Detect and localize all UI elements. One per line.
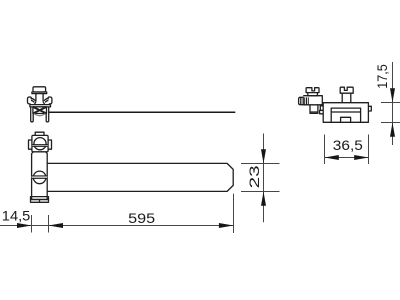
side view left screw head with slot notch	[306, 88, 319, 93]
arrow 36,5 right (points right at x=368.5)	[354, 155, 368, 160]
dimension 23 vertical dimension line	[263, 134, 265, 223]
front view screw housing	[32, 135, 48, 151]
top view right claw curves	[44, 98, 48, 102]
top view shank flare to plate	[34, 102, 44, 105]
side view block left tab	[320, 106, 323, 111]
front view lower screw slot shading	[32, 176, 48, 179]
svg-text:23: 23	[247, 165, 262, 188]
side view claw body	[303, 96, 322, 105]
front view upper screw slot shading	[32, 145, 48, 147]
dimension 36,5 extension line right	[368, 135, 370, 165]
side view horizontal screw head	[299, 97, 304, 104]
arrow 23 bottom (points up at y=191.5)	[261, 192, 266, 206]
dimension 23 extension line top	[241, 163, 280, 165]
front view upper screw slot	[32, 145, 48, 147]
top view left claw ear	[28, 97, 32, 104]
arrow 14,5 left (points right at x=31.5)	[17, 223, 32, 228]
dimension 14,5 / 595 shared extension line	[48, 215, 50, 233]
top view left claw curves	[31, 98, 35, 102]
side view right screw head with slot notch	[340, 87, 353, 93]
dimension 23 extension line bottom	[241, 191, 280, 193]
top view clamp box X brace	[33, 107, 47, 114]
front view bar (595 long, chamfered right end)	[47, 163, 233, 191]
top view right claw ear	[48, 97, 52, 104]
svg-text:36,5: 36,5	[333, 137, 363, 153]
side view vertical screw shank below claw	[310, 105, 318, 114]
dimension 14,5 extension line left	[31, 215, 33, 233]
arrow 36,5 left (points left at x=324.5)	[325, 155, 339, 160]
arrow 595 right (points right at x=233.4)	[219, 223, 234, 228]
front view body	[32, 152, 48, 200]
side view bottom notch	[341, 117, 351, 122]
arrow 17,5 top (points down at y=102.5)	[390, 88, 395, 102]
front view housing left tab	[29, 140, 32, 149]
dimension 17,5 extension line bottom	[381, 122, 400, 124]
side view block left lower tab	[320, 110, 324, 113]
front view lower screw slot	[32, 176, 48, 179]
arrow 595 left (points left at x=48.5)	[49, 223, 64, 228]
side view main block	[323, 103, 368, 123]
arrow 17,5 bottom (points up at y=122.5)	[390, 123, 395, 137]
dimension 36,5 extension line left	[324, 135, 326, 165]
dimension 17,5 vertical dimension line	[392, 62, 394, 145]
dimension line under part (14,5 and 595)	[0, 225, 234, 227]
top view bar edge line (length of bar seen from above)	[49, 111, 236, 113]
svg-text:17,5: 17,5	[375, 64, 390, 89]
front view foot plate	[31, 197, 49, 203]
svg-text:14,5: 14,5	[2, 208, 31, 223]
front view housing top tab	[35, 132, 44, 135]
top view left leg	[31, 107, 34, 122]
front view upper screw head circle	[34, 138, 46, 150]
dimension 17,5 extension line top	[381, 102, 400, 104]
front view lower screw head circle	[33, 171, 46, 184]
dimension 595 extension line right	[233, 194, 235, 233]
arrow 23 top (points down at y=163.5)	[261, 149, 266, 163]
top view right leg	[46, 107, 49, 122]
side view block right tab	[368, 106, 371, 111]
svg-text:595: 595	[128, 210, 155, 226]
top view rod arc under box	[34, 114, 45, 116]
top view screw head flange	[32, 92, 47, 94]
front view housing right tab	[48, 140, 51, 149]
top view clamp top plate	[30, 105, 51, 107]
side view horizontal screw thread ticks	[305, 97, 309, 104]
side view left screw neck	[308, 93, 318, 96]
top view screw head	[33, 87, 46, 92]
dimension 36,5 dimension line	[325, 157, 369, 159]
top view screw shank	[36, 94, 43, 102]
side view right screw shank	[342, 93, 351, 103]
side view bar cross-section slot	[331, 108, 360, 122]
top view clamp box	[33, 107, 47, 114]
